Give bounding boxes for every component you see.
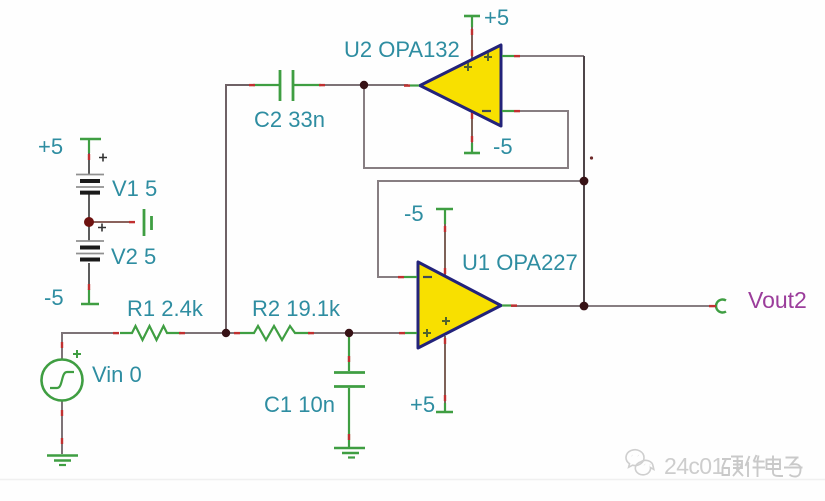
wire node C to U2 output: [364, 84, 408, 86]
battery midpoint junction dot: [84, 217, 94, 227]
capacitor C1: [334, 333, 365, 447]
power jumper -5 below U2: [464, 143, 480, 153]
wire V1 stem: [88, 153, 90, 175]
svg-text:V1 5: V1 5: [112, 176, 157, 201]
ground tap right of battery midpoint: [144, 209, 152, 236]
svg-text:U2 OPA132: U2 OPA132: [344, 37, 460, 62]
wire U2 positive supply stem: [471, 27, 473, 59]
op-amp U2 OPA132: [408, 45, 514, 126]
svg-text:U1 OPA227: U1 OPA227: [462, 250, 578, 275]
faint separator line: [0, 479, 825, 481]
source Vin: [42, 350, 83, 401]
wire Vin to ground: [61, 401, 63, 454]
node D junction dot: [580, 177, 589, 186]
ground below C1: [334, 448, 365, 458]
svg-text:C2 33n: C2 33n: [254, 107, 325, 132]
node A junction dot: [222, 329, 230, 337]
stray dot: [590, 156, 593, 159]
wire U1 feedback loop to inverting input: [378, 181, 584, 277]
wire node A up to C2 row: [226, 85, 253, 333]
terminal Vout2: [716, 300, 726, 313]
svg-text:+5: +5: [484, 5, 509, 30]
op-amp U1 OPA227: [404, 262, 511, 348]
node B junction dot: [345, 329, 353, 337]
svg-text:-5: -5: [404, 201, 424, 226]
battery V1: [76, 154, 107, 193]
svg-text:Vin 0: Vin 0: [92, 362, 142, 387]
wire V1 to V2 stem: [88, 192, 90, 241]
wire U2 negative supply stem: [471, 111, 473, 143]
wire U1 positive supply stem: [444, 336, 446, 403]
node E junction dot: [580, 302, 589, 311]
svg-text:-5: -5: [493, 134, 513, 159]
node C junction dot: [360, 81, 368, 89]
wire U1 output to node E: [511, 305, 584, 307]
capacitor C2: [253, 70, 321, 101]
wire U2 noninverting input to net D: [515, 55, 584, 57]
svg-text:R1 2.4k: R1 2.4k: [127, 296, 204, 321]
red pin markers: [61, 29, 716, 444]
ground below Vin: [47, 456, 78, 466]
wire node E to Vout2 terminal: [584, 305, 716, 307]
wire R1 to node A: [181, 332, 226, 334]
resistor R2: [240, 326, 310, 340]
svg-text:C1 10n: C1 10n: [264, 392, 335, 417]
svg-text:V2 5: V2 5: [111, 244, 156, 269]
power jumper -5 above U1: [436, 209, 453, 224]
wire U1 negative supply stem: [444, 224, 446, 276]
wire V2 bottom stem: [88, 263, 90, 289]
wire Vin to R1: [62, 333, 118, 359]
svg-text:Vout2: Vout2: [748, 287, 807, 313]
power jumper -5 below V2: [81, 289, 99, 304]
wire net D vertical: [583, 56, 585, 306]
wire R2 to node B: [311, 332, 349, 334]
power jumper +5 above V1: [80, 139, 101, 153]
watermark logo: [626, 450, 654, 475]
wire U2 feedback loop to inverting input: [364, 85, 568, 168]
battery V2: [76, 224, 106, 260]
svg-text:+5: +5: [410, 392, 435, 417]
wire battery midpoint to ground tap: [89, 221, 131, 223]
svg-text:R2 19.1k: R2 19.1k: [252, 296, 341, 321]
svg-text:24c01: 24c01: [664, 453, 724, 479]
wire node A to R2: [226, 332, 240, 334]
power jumper +5 below U1: [436, 403, 453, 412]
wire C2 to node C: [321, 84, 364, 86]
wire node B to U1 plus input: [349, 332, 404, 334]
power jumper +5 above U2: [464, 16, 480, 27]
svg-text:+5: +5: [38, 134, 63, 159]
svg-text:-5: -5: [44, 285, 64, 310]
resistor R1: [120, 326, 181, 340]
